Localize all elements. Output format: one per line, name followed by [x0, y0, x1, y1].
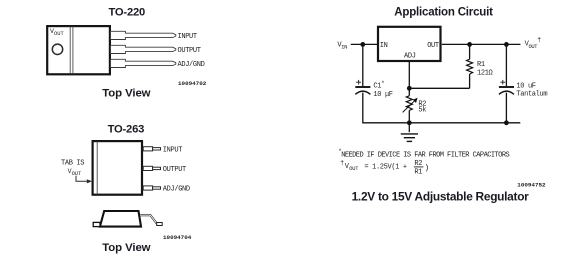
TO-220 mounting hole [52, 44, 62, 54]
note: needed if device is far from filter capacitors [338, 148, 509, 159]
capacitor C2 top plate [499, 86, 514, 88]
svg-text:TAB IS: TAB IS [61, 159, 84, 167]
svg-text:10094704: 10094704 [163, 234, 192, 241]
TO-263 side view tab foot [93, 222, 100, 226]
resistor R1 [467, 44, 473, 88]
svg-text:= 1.25V(1 +: = 1.25V(1 + [364, 163, 407, 171]
TO-220 pin 3 lead (ADJ/GND) [111, 59, 176, 67]
node dot at output capacitor [504, 42, 509, 47]
svg-text:Top View: Top View [102, 88, 150, 100]
TO-263 package body [93, 141, 142, 195]
TO-220 tab line 2 [72, 27, 74, 74]
svg-text:ADJ: ADJ [404, 53, 416, 61]
TO-263 tab line [96, 142, 98, 195]
TO-263 side view gull-wing lead [140, 215, 162, 225]
resistor R2 (adjustable) [403, 88, 418, 123]
capacitor C1 curved plate [355, 91, 370, 94]
TO-263 side view body [100, 211, 141, 227]
formula Vout = 1.25V(1 + R2/R1) [340, 160, 429, 177]
svg-text:OUT: OUT [427, 42, 439, 50]
svg-text:1.2V to 15V Adjustable Regulat: 1.2V to 15V Adjustable Regulator [352, 189, 530, 203]
TO-263 pin 1 lead (INPUT) [143, 147, 160, 151]
svg-text:IN: IN [380, 42, 388, 50]
TO-220 tab line 1 [69, 27, 71, 74]
capacitor C1 top plate [355, 86, 370, 88]
svg-text:C1*: C1* [373, 80, 384, 90]
svg-text:Top View: Top View [102, 242, 150, 254]
svg-text:ADJ/GND: ADJ/GND [178, 61, 205, 69]
svg-text:OUTPUT: OUTPUT [163, 166, 186, 174]
wire C2 to ground rail [505, 93, 507, 123]
node dot rail / R2 [407, 120, 412, 125]
TO-220 package body [47, 26, 110, 74]
svg-text:VOUT†: VOUT† [525, 37, 542, 50]
svg-text:ADJ/GND: ADJ/GND [163, 186, 190, 194]
regulator U1 box [378, 27, 441, 61]
wire regulator OUT to VOUT [442, 43, 521, 45]
svg-text:R1: R1 [477, 61, 485, 69]
wire VIN to regulator IN [351, 43, 377, 45]
svg-text:10094702: 10094702 [178, 80, 207, 87]
svg-text:†: † [340, 160, 344, 168]
node dot rail / C2 [504, 120, 509, 125]
node dot ADJ / R1 junction [407, 86, 412, 91]
wire regulator ADJ down [408, 62, 410, 89]
svg-text:Tantalum: Tantalum [516, 90, 547, 98]
TO-263 pin 3 lead (ADJ/GND) [143, 186, 160, 190]
label TAB IS VOUT [61, 159, 84, 177]
svg-text:OUTPUT: OUTPUT [178, 47, 201, 55]
node dot at VIN / C1 junction [360, 42, 365, 47]
svg-text:R1: R1 [414, 169, 422, 177]
svg-text:OUT: OUT [349, 166, 359, 172]
arrow from VOUT label to tab [76, 176, 92, 184]
svg-text:INPUT: INPUT [163, 146, 182, 154]
wire output capacitor branch down [505, 44, 507, 86]
TO-220 pin 2 lead (OUTPUT) [111, 45, 176, 53]
TO-220 pin 1 lead (INPUT) [111, 31, 176, 39]
wire C1 to ground rail [362, 93, 364, 124]
svg-text:NEEDED IF DEVICE IS FAR FROM F: NEEDED IF DEVICE IS FAR FROM FILTER CAPA… [341, 151, 509, 159]
svg-text:121Ω: 121Ω [477, 70, 493, 78]
capacitor C2 plus sign [500, 80, 505, 85]
svg-text:): ) [424, 164, 429, 173]
ground symbol [401, 123, 418, 142]
svg-text:TO-220: TO-220 [109, 7, 146, 19]
ground rail wire [363, 122, 521, 124]
svg-text:10094752: 10094752 [517, 181, 546, 188]
svg-text:5k: 5k [418, 107, 426, 115]
node dot at R1 top [467, 42, 472, 47]
capacitor C2 curved plate [499, 91, 514, 94]
wire ADJ node to R1 bottom [409, 87, 469, 89]
svg-text:INPUT: INPUT [178, 33, 197, 41]
wire C1 branch down [362, 44, 364, 86]
svg-text:VIN: VIN [337, 41, 347, 50]
capacitor C1 plus sign [356, 80, 361, 85]
svg-text:TO-263: TO-263 [108, 123, 145, 135]
svg-text:Application Circuit: Application Circuit [394, 7, 493, 19]
svg-text:VOUT: VOUT [68, 168, 82, 177]
svg-text:10 μF: 10 μF [373, 91, 392, 99]
TO-263 pin 2 lead (OUTPUT) [143, 166, 160, 170]
